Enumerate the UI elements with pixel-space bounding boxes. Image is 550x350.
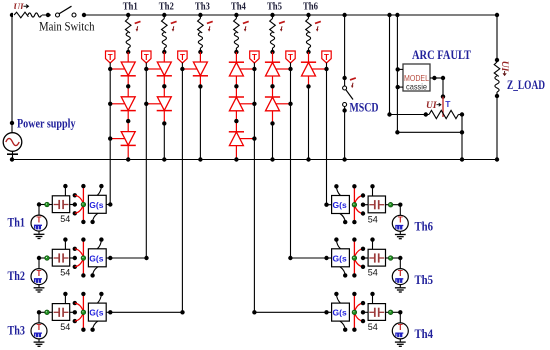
thyristor Th1 device 1 [121,62,135,76]
node arc probe [441,94,445,98]
node Th1 corner [37,202,41,206]
node above power supply [10,121,14,125]
node Th3 green in [45,310,50,315]
node Th6 tie top [361,193,365,197]
svg-text:Th4: Th4 [415,327,434,341]
resistor Th3 snubber [199,15,201,19]
label Th5 current arrow [279,21,285,23]
svg-text:T: T [288,53,293,62]
thyristor Th6 device 1 [302,62,316,76]
node arc V1 top [387,13,391,17]
node after main switch [82,13,86,17]
svg-text:T: T [108,53,113,62]
wire Th3 gate 1 [182,68,196,70]
source T pulse Th5 [392,269,408,285]
node Z_LOAD above [495,58,499,62]
capacitor box 54 Th1 [52,196,69,213]
node Th2 tie mid [73,256,77,260]
wire Z_LOAD lower [496,96,498,160]
wire bottom rail [12,159,497,161]
svg-text:Th5: Th5 [415,273,434,287]
wire Th6 cap in [363,204,368,206]
svg-text:Power supply: Power supply [17,117,76,131]
source T pulse Th3 [31,323,47,339]
label Th1 current arrow [135,21,141,23]
node Th6 top rail junction [306,13,310,17]
node Th3 red top [81,292,85,296]
wire arc resistor lead right [458,114,462,116]
wire Th5 resistor to diode [272,52,274,62]
label Th2 current arrow [171,21,177,23]
pin G top Th6 [336,186,340,195]
wire Th5 cathode stub [272,111,274,124]
node MSCD below switch [342,108,346,112]
node Th2 green in [45,256,50,261]
node Th4 green mid [352,310,357,315]
svg-text:54: 54 [60,322,70,332]
wire Th2 interstage 1 [163,76,165,97]
thyristor Th4 device 3 [229,132,243,146]
pin cap top Th1 [64,186,66,196]
label MSCD current arrow [350,78,356,80]
resistor Th2 snubber [163,15,165,19]
pin cap top Th3 [64,294,66,304]
node arc link right [460,130,464,134]
wire Th3 source up [38,312,40,323]
node Th6 tie mid [361,203,365,207]
svg-text:Th1: Th1 [8,215,26,229]
ground Th2 [38,285,40,288]
node Th3 bottom rail junction [198,157,202,161]
block G(s) Th1 [88,195,106,213]
node Th1 green mid [81,202,86,207]
wire Th4 interstage 1 [235,76,237,97]
connector Th2 red arcs [75,249,83,256]
node Th2 top rail junction [162,13,166,17]
connector Th3 red arcs [75,303,83,310]
svg-text:Z_LOAD: Z_LOAD [507,78,545,92]
wire Th4 cap out [386,311,389,313]
wire Th5 cap out [386,257,389,259]
node Th4 red top [352,292,356,296]
node after main resistor [46,13,50,17]
wire Th6 gate bus [326,63,328,69]
wire Th4 cathode to rail [235,146,237,160]
thyristor Th5 device 1 [266,62,280,76]
node Th6 green mid [352,202,357,207]
svg-text:Th1: Th1 [123,1,138,12]
wire Th4 gate 2 [240,103,254,105]
node Z_LOAD top corner [495,13,499,17]
node Th6 corner [398,203,402,207]
node Th6 red bottom [352,220,356,224]
wire Z_LOAD upper [496,15,498,62]
pin G in Th5 [327,257,332,259]
wire Th1 interstage 1 [127,76,129,97]
svg-text:54: 54 [60,268,70,278]
label Th6 current arrow [315,21,321,23]
source T pulse Th4 [392,323,408,339]
label Th3 current arrow [207,21,213,23]
pin U1 left 1 [397,68,403,70]
svg-text:T: T [445,99,451,109]
node Th3 below resistor [198,50,202,54]
wire Th2 source up [38,258,40,269]
wire Th1 source up [38,205,40,216]
block G(s) Th5 [332,249,350,267]
node Th1 red bottom [81,220,85,224]
wire Th1 cap out [70,204,75,206]
wire Th5 gate 1 [276,68,290,70]
resistor Th1 snubber [127,15,129,19]
wire arc V1 vertical [389,15,391,115]
svg-text:Th2: Th2 [159,1,174,12]
svg-text:T: T [37,269,42,278]
wire Th2 cap out [70,257,75,259]
node Th1 top rail junction [126,13,130,17]
connector Th5 red arcs [355,249,363,256]
probe arc red [442,97,444,117]
svg-text:Main Switch: Main Switch [39,20,95,34]
wire Th6 to rail [308,86,310,159]
wire MSCD upper [344,15,346,86]
node Th2 corner [37,256,41,260]
wire Th1 resistor to diode [127,52,129,62]
wire Th2 gate 2 [146,103,160,105]
wire Th6 gate 1 [312,68,326,70]
wire arc V2 vertical [396,15,398,132]
node Th1 tie mid [73,202,77,206]
wire Th3 resistor to diode [199,52,201,62]
thyristor Th2 device 1 [157,62,171,76]
node Th2 cathode [162,121,166,125]
pin cap top Th6 [372,186,374,196]
node Th5 tie bottom [361,265,365,269]
node Z_LOAD below [495,94,499,98]
thyristor Th2 device 2 [157,97,171,111]
connector Th1 red arcs [75,195,83,202]
switch MSCD [343,86,347,90]
node Th3 tie mid [73,310,77,314]
node Th1 tie bottom [73,211,77,215]
wire Th4 to source [393,311,401,313]
wire Th3 to cap [49,311,52,313]
probe T tag Th6 [322,51,331,63]
pin G out Th3 [106,311,110,313]
node Th3 top rail junction [198,13,202,17]
node arc V2 top [395,13,399,17]
svg-text:Th6: Th6 [415,220,434,234]
svg-text:T: T [398,323,403,332]
node Th1 below resistor [126,50,130,54]
wire Th4 gate 3 [240,138,254,140]
source T pulse Th2 [31,269,47,285]
pin G top Th5 [336,240,340,249]
block G(s) Th3 [88,303,106,321]
wire Th5 gate bus [290,63,292,69]
node arc V2 corner [395,130,399,134]
wire Th1 gate 2 [110,103,124,105]
pin G top Th3 [97,294,101,303]
svg-text:Th4: Th4 [231,1,247,12]
connector Th4 red vertical [353,294,355,330]
resistor Th6 snubber [308,15,310,19]
node Th5 interstage 1 [270,84,274,88]
connector Th4 red arcs [355,303,363,310]
node Th5 green mid [352,256,357,261]
block MODEL cassie U1 [403,64,430,91]
node arc resistor left [424,112,428,116]
svg-text:Th6: Th6 [303,1,318,12]
wire Th1 gate 3 [110,138,124,140]
wire Th1 gate 1 [110,68,124,70]
ground Th5 [399,285,401,288]
pin G bottom Th1 [93,213,98,222]
pin G in Th4 [327,311,332,313]
svg-text:54: 54 [368,322,378,332]
svg-text:T: T [398,216,403,225]
connector Th1 red vertical [82,186,84,222]
node Th4 tie mid [361,310,365,314]
wire left vertical [11,15,13,133]
capacitor box 54 Th6 [368,196,385,213]
probe T tag Th2 [142,51,151,63]
block G(s) Th6 [332,196,350,214]
connector Th6 red vertical [353,186,355,222]
wire Th5 gate 2 [276,103,290,105]
label Th4 current arrow [243,21,249,23]
node Th6 green out [388,202,393,207]
node Th4 tie bottom [361,319,365,323]
svg-text:T: T [144,53,149,62]
pin U1 left 2 [397,86,403,88]
node arc resistor right [460,112,464,116]
wire Th6 resistor to diode [308,52,310,62]
svg-text:UI: UI [499,61,509,72]
thyristor Th5 device 2 [266,97,280,111]
svg-text:G(s: G(s [89,308,103,318]
node Th6 bottom rail junction [306,157,310,161]
wire Th6 to source [393,204,401,206]
wire Th2 gate bus [145,63,147,69]
svg-text:G(s: G(s [333,200,347,210]
thyristor Th4 device 1 [229,62,243,76]
node Th5 bottom rail junction [270,157,274,161]
wire Th3 gate bus [181,63,183,69]
node MSCD above switch [342,76,346,80]
pin cap top Th4 [372,294,374,304]
pin G top Th2 [97,240,101,249]
svg-text:T: T [398,269,403,278]
wire arc resistor lead left [390,114,430,116]
node Th4 top rail junction [234,13,238,17]
block G(s) Th2 [88,249,106,267]
wire MSCD lower [344,107,346,160]
node MSCD bottom rail junction [342,157,346,161]
svg-text:G(s: G(s [89,253,103,263]
node Th5 red top [352,237,356,241]
ground Th1 [38,231,40,234]
node Th1 bottom rail junction [126,157,130,161]
node Th2 interstage 1 [162,84,166,88]
wire Th2 gate 1 [146,68,160,70]
node Th5 corner [398,256,402,260]
node Th5 green out [388,256,393,261]
node Th3 red bottom [81,328,85,332]
node Th5 tie mid [361,256,365,260]
node Th3 green mid [81,310,86,315]
thyristor Th3 device 1 [193,62,207,76]
pin cap top Th5 [372,240,374,250]
svg-text:T: T [37,215,42,224]
node Th4 red bottom [352,328,356,332]
wire Th5 gate bus horizontal [290,257,326,259]
node Th6 cathode [306,84,310,88]
svg-text:cassie: cassie [406,82,427,92]
node MSCD top rail junction [342,13,346,17]
pin G bottom Th3 [93,321,98,330]
node Th5 tie top [361,247,365,251]
capacitor box 54 Th2 [52,249,69,266]
node Th5 below resistor [270,50,274,54]
node Th3 corner [37,310,41,314]
node arc bottom rail junction [460,157,464,161]
node Th4 interstage 1 [234,84,238,88]
resistor Th5 snubber [272,15,274,19]
wire arc probe drop [442,78,444,97]
node Th2 red bottom [81,273,85,277]
capacitor box 54 Th3 [52,304,69,321]
resistor arc R [429,110,458,118]
source T pulse Th1 [31,215,47,231]
node Th1 interstage 2 [126,119,130,123]
resistor main R [13,9,42,21]
wire Th1 to cap [49,204,52,206]
svg-text:Th2: Th2 [8,269,26,283]
wire Th2 resistor to diode [163,52,165,62]
thyristor Th4 device 2 [229,97,243,111]
node Th4 tie top [361,301,365,305]
wire Th5 to source [393,257,401,259]
node top-left corner [10,13,14,17]
node Th2 red top [81,237,85,241]
thyristor Th1 device 2 [121,97,135,111]
wire Th1 cathode to rail [127,146,129,160]
node Th4 interstage 2 [234,119,238,123]
probe T tag Th4 [250,51,259,63]
pin G bottom Th6 [340,214,345,223]
node Th3 tie top [73,301,77,305]
node Th5 top rail junction [270,13,274,17]
svg-text:ARC FAULT: ARC FAULT [412,47,471,62]
node Th2 tie bottom [73,265,77,269]
node Th3 cathode [198,84,202,88]
node Th1 tie top [73,193,77,197]
wire Th4 gate 1 [240,68,254,70]
switch Main Switch [51,4,83,18]
node Th1 interstage 1 [126,84,130,88]
wire top rail [12,14,497,16]
ground Th4 [399,339,401,342]
resistor Z_LOAD [494,62,500,76]
node Th2 below resistor [162,50,166,54]
wire Th5 cap in [363,257,368,259]
node Th5 red bottom [352,273,356,277]
pin G bottom Th4 [340,321,345,330]
node Th2 bottom rail junction [162,157,166,161]
resistor Th4 snubber [235,15,237,19]
svg-text:Th3: Th3 [8,324,26,338]
svg-text:Th3: Th3 [195,1,210,12]
node Th5 cathode [270,121,274,125]
svg-text:54: 54 [60,214,70,224]
pin G out Th2 [106,257,110,259]
node Th4 corner [398,310,402,314]
wire Th5 interstage 1 [272,76,274,97]
svg-text:T: T [180,53,185,62]
pin U1 right [430,77,443,79]
wire Th6 cap out [386,204,389,206]
pin G out Th1 [106,204,110,206]
connector Th2 red vertical [82,240,84,276]
wire Th1 interstage 2 [127,111,129,132]
capacitor box 54 Th4 [368,304,385,321]
wire arc right drop [461,115,463,160]
node power supply bottom [10,157,14,161]
connector Th6 red arcs [355,196,363,203]
pin G in Th6 [327,204,332,206]
connector Th3 red vertical [82,294,84,330]
svg-text:T: T [37,323,42,332]
node Th3 tie bottom [73,319,77,323]
ground Th3 [38,339,40,342]
pin cap top Th2 [64,240,66,250]
wire Th4 interstage 2 [235,111,237,132]
node Th2 tie top [73,247,77,251]
svg-text:T: T [252,53,257,62]
wire Th4 gate bus horizontal [254,311,326,313]
wire Th2 to cap [49,257,52,259]
thyristor Th1 device 3 [121,132,135,146]
node arc resistor corner [387,112,391,116]
node Th1 green in [45,202,50,207]
wire Th2 gate bus horizontal [110,257,146,259]
node Th4 bottom rail junction [234,157,238,161]
connector Th5 red vertical [353,240,355,276]
svg-text:G(s: G(s [333,253,347,263]
capacitor box 54 Th5 [368,249,385,266]
source AC power supply V1 [3,133,22,152]
source T pulse Th6 [392,215,408,231]
wire arc bottom link [397,131,462,133]
svg-text:G(s: G(s [333,308,347,318]
wire Th4 resistor to diode [235,52,237,62]
svg-text:MSCD: MSCD [350,101,379,115]
wire Th2 cathode stub [163,111,165,124]
node Th6 red top [352,184,356,188]
probe T tag Th1 [106,51,115,63]
wire Th2 to rail [163,123,165,159]
node Th6 below resistor [306,50,310,54]
block G(s) Th4 [332,303,350,321]
node Th1 red top [81,184,85,188]
node Th6 tie bottom [361,211,365,215]
ground Th6 [399,231,401,234]
probe T tag Th5 [286,51,295,63]
wire Th6 cathode stub [308,76,310,86]
pin G top Th1 [97,186,101,195]
pin G bottom Th5 [340,267,345,276]
